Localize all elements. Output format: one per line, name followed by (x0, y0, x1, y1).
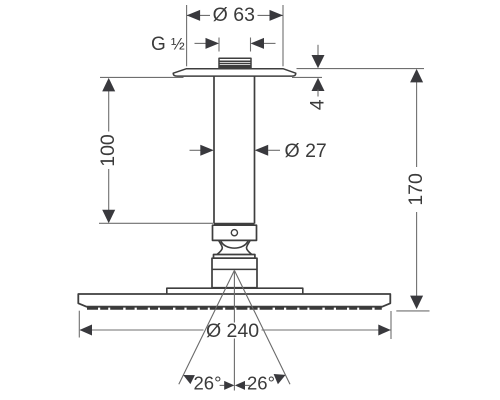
dimension G1/2 extension lines (219, 38, 251, 52)
joint rim plate (214, 255, 255, 259)
dimension Ø63 line (187, 14, 283, 16)
ceiling flange plate (173, 69, 296, 76)
angle 26 right outer arrowhead (274, 374, 286, 384)
housing divider line (212, 268, 257, 270)
ball joint spool (217, 240, 252, 254)
dimension Ø27 right arrow (255, 145, 269, 156)
dimension 4 bottom arrow (312, 78, 325, 91)
svg-text:Ø 240: Ø 240 (206, 320, 259, 342)
dimension Ø63 arrows (187, 10, 283, 21)
flange underside reference line right (292, 76, 322, 78)
dimension 170 line (416, 81, 418, 297)
ball (221, 241, 248, 248)
ceiling reference line left (100, 76, 184, 78)
svg-text:100: 100 (97, 134, 119, 167)
angle 26 left outer arrowhead (183, 375, 195, 384)
dimension Ø240 line (80, 329, 391, 331)
svg-text:170: 170 (405, 173, 427, 206)
svg-text:4: 4 (307, 99, 329, 110)
dimension 4 top arrow (317, 45, 319, 57)
svg-text:Ø 27: Ø 27 (285, 140, 327, 162)
svg-text:26°: 26° (194, 372, 222, 393)
dimension Ø240 extension lines (79, 311, 391, 339)
dimension 100 bottom reference line (99, 222, 213, 224)
dimension 170 arrows (410, 69, 423, 83)
svg-text:26°: 26° (247, 372, 275, 393)
svg-text:Ø 63: Ø 63 (213, 4, 255, 26)
spray cone right line (234, 270, 290, 384)
head platform step (167, 288, 303, 294)
shower head disk (78, 294, 390, 307)
spray cone center line (233, 270, 235, 390)
angle 26 inner arrows (bowtie at center line) (220, 384, 225, 386)
svg-text:G ½: G ½ (151, 34, 185, 55)
dimension Ø240 arrows (80, 325, 391, 336)
ceiling reference line right (top of flange, shared by dims 4 and 170) (297, 68, 425, 70)
dimension 170 bottom reference line (396, 310, 429, 312)
spray cone left line (179, 270, 235, 384)
spray nozzle face (87, 307, 382, 310)
joint housing block (212, 258, 257, 288)
pipe (connection tube) (214, 77, 255, 224)
thread connector G1/2 (219, 58, 251, 69)
screw hole (231, 230, 237, 236)
nut with screw hole (213, 225, 257, 240)
dimension Ø63 extension lines (187, 5, 283, 66)
dimension Ø27 left arrow (190, 149, 202, 151)
dimension 100 arrows (102, 78, 115, 92)
dimension G1/2 arrows (195, 42, 207, 44)
dimension 100 line (108, 91, 110, 211)
